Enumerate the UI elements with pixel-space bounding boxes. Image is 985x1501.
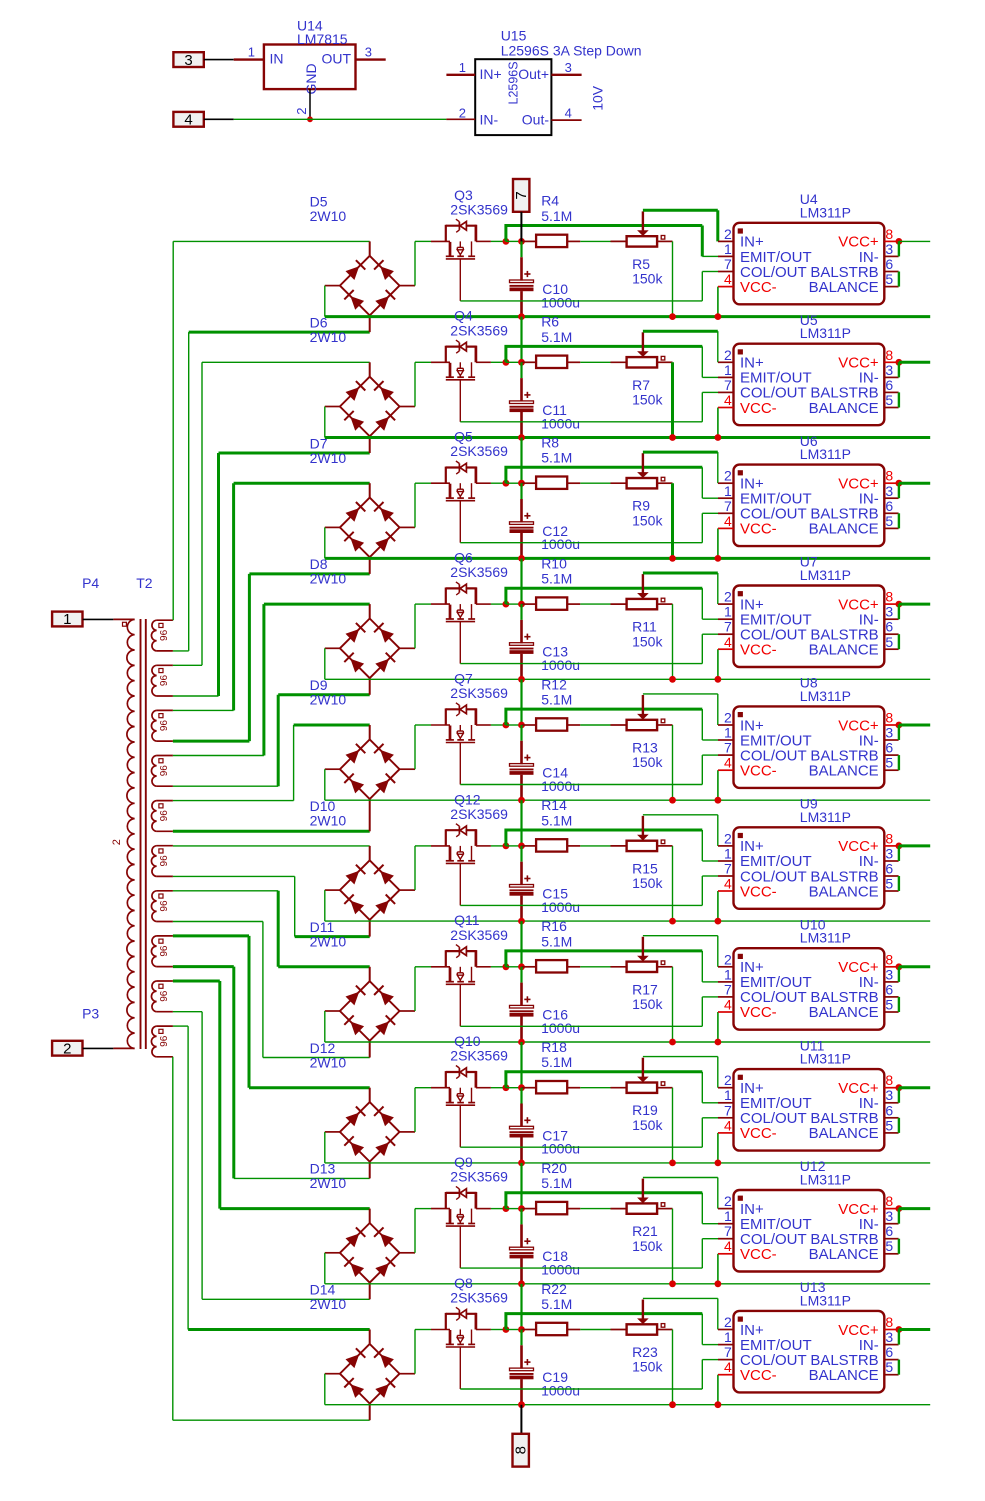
svg-text:5: 5 <box>885 1238 893 1254</box>
label C13 <box>541 644 580 673</box>
node junction rail row7 R <box>669 1039 676 1046</box>
potentiometer R7 150k <box>627 332 665 367</box>
svg-text:2: 2 <box>724 347 732 363</box>
wire bridge D12 bottom stub <box>369 1162 371 1179</box>
node junction rail row1 P4 <box>715 313 722 320</box>
label R19 150k <box>632 1102 663 1133</box>
svg-text:LM311P: LM311P <box>800 325 851 341</box>
wire pin3 to pin8 row7 <box>898 967 900 982</box>
node junction rail row1 C <box>518 313 525 320</box>
svg-text:1000u: 1000u <box>541 778 580 794</box>
wire pin8 row8 <box>899 1086 930 1089</box>
wire bridge D10 left corner down <box>324 890 326 921</box>
svg-text:R20: R20 <box>541 1160 567 1176</box>
svg-text:2W10: 2W10 <box>310 813 347 829</box>
svg-text:150k: 150k <box>632 1359 663 1375</box>
wire backbone row4 to row5 <box>520 679 522 725</box>
wire R14 left lead <box>522 845 537 847</box>
bridge rectifier D11 2W10 <box>340 981 400 1041</box>
svg-text:5: 5 <box>885 271 893 287</box>
svg-text:Q12: Q12 <box>454 791 481 807</box>
wire R21 right lead <box>657 1208 672 1210</box>
transformer T2 secondary winding 6 <box>151 846 172 877</box>
svg-text:6: 6 <box>885 1102 893 1118</box>
net label 10V <box>590 85 606 111</box>
svg-text:2: 2 <box>724 830 732 846</box>
label C19 <box>541 1369 580 1398</box>
node junction row7 A <box>503 963 510 970</box>
wire backbone row9 to row10 <box>520 1284 522 1330</box>
wire bridge D8 left lead <box>325 647 340 649</box>
svg-text:1: 1 <box>724 966 732 982</box>
transformer T2 secondary winding 3 <box>151 710 172 741</box>
wire term3 to U14 pin1 <box>204 59 234 61</box>
svg-text:5.1M: 5.1M <box>541 1296 572 1312</box>
svg-text:LM311P: LM311P <box>800 930 851 946</box>
svg-text:T2: T2 <box>136 575 153 591</box>
svg-text:VCC-: VCC- <box>740 1004 777 1021</box>
wire rail row3 <box>325 557 930 560</box>
svg-text:4: 4 <box>724 876 732 892</box>
wire sec7 top lead <box>173 890 278 892</box>
wire between resistors <box>580 724 610 726</box>
wire R19 right lead <box>657 1087 672 1089</box>
wire row1 bottom feed <box>189 331 370 334</box>
svg-text:8: 8 <box>512 1446 529 1454</box>
svg-text:4: 4 <box>724 634 732 650</box>
wire rail row10 <box>325 1404 930 1406</box>
label Q6 <box>450 550 508 581</box>
wire row10 top vertical <box>187 1026 189 1329</box>
svg-text:1: 1 <box>248 45 255 60</box>
wire bridge D7 right up <box>414 483 416 527</box>
wire wiper feed row6 <box>643 815 718 846</box>
wire pin4 row3 to rail <box>717 528 719 558</box>
transformer T2 secondary winding 7 <box>151 891 172 922</box>
wire bridge D13 bottom stub <box>369 1283 371 1300</box>
svg-text:6: 6 <box>885 1344 893 1360</box>
svg-text:2SK3569: 2SK3569 <box>450 443 508 459</box>
wire R13 left lead <box>611 724 627 726</box>
wire pin8 row2 <box>899 361 930 364</box>
wire Q12 drain stub <box>476 845 491 847</box>
wire wiper feed row4 <box>643 573 718 604</box>
label R7 150k <box>632 377 663 408</box>
wire R18 right lead <box>567 1087 580 1089</box>
wire bridge D11 right up <box>414 967 416 1011</box>
wire R11 right down <box>672 604 674 679</box>
svg-text:1: 1 <box>724 1208 732 1224</box>
wire pin5 to pin6 row5 <box>898 755 900 770</box>
node junction row3 B <box>518 480 525 487</box>
label Q3 <box>450 187 508 218</box>
wire source row2 <box>460 392 718 421</box>
wire backbone row8 to row9 <box>520 1163 522 1209</box>
wire bridge D9 top stub <box>369 725 371 739</box>
wire source row4 <box>460 634 718 663</box>
svg-text:2W10: 2W10 <box>310 450 347 466</box>
svg-text:7: 7 <box>724 1102 732 1118</box>
node junction pin8 row7 <box>896 963 903 970</box>
label LM7815 <box>297 31 348 47</box>
label Q7 <box>450 670 508 701</box>
wire pin8 row6 <box>899 844 930 847</box>
wire pin8 row9 <box>899 1207 930 1210</box>
node junction row6 A <box>503 843 510 850</box>
transformer T2 secondary winding 10 <box>151 1026 172 1057</box>
svg-text:R18: R18 <box>541 1039 567 1055</box>
wire junction to backbone <box>506 361 522 363</box>
svg-text:5.1M: 5.1M <box>541 450 572 466</box>
wire main row2 green <box>415 361 431 363</box>
wire source row3 <box>460 513 718 542</box>
wire row10 bottom feed <box>173 1419 370 1421</box>
svg-text:IN-: IN- <box>480 111 499 127</box>
node junction row7 B <box>518 963 525 970</box>
wire source row6 <box>460 876 718 905</box>
wire junction to backbone <box>506 1208 522 1210</box>
wire bridge D10 left lead <box>325 889 340 891</box>
wire backbone row2 to row3 <box>520 438 522 484</box>
svg-text:Q6: Q6 <box>454 550 473 566</box>
transistor Q5 2SK3569 <box>446 461 477 543</box>
label Q11 <box>450 912 508 943</box>
wire bridge D13 left lead <box>325 1252 340 1254</box>
wire pin1 feed row1 <box>506 226 718 257</box>
wire R9 right down <box>671 483 674 558</box>
svg-text:1000u: 1000u <box>541 294 580 310</box>
comparator U10 LM311P <box>718 948 899 1029</box>
wire bridge D9 left corner down <box>324 769 326 800</box>
svg-text:BALANCE: BALANCE <box>809 642 879 659</box>
wire sec10 top lead <box>173 1025 188 1027</box>
label Q4 <box>450 308 508 339</box>
wire row10 bottom vertical <box>172 1057 174 1420</box>
svg-text:96: 96 <box>159 1035 170 1047</box>
wire R7 left lead <box>611 361 627 363</box>
node junction rail row4 P4 <box>715 676 722 683</box>
wire bridge D9 right lead <box>400 768 416 770</box>
label C10 <box>541 281 580 310</box>
svg-text:4: 4 <box>184 112 192 129</box>
svg-text:7: 7 <box>724 861 732 877</box>
svg-text:Q7: Q7 <box>454 670 473 686</box>
wire bridge D10 right lead <box>400 889 416 891</box>
wire bridge D11 left corner down <box>324 1011 326 1042</box>
potentiometer R21 150k <box>627 1179 665 1214</box>
transistor Q9 2SK3569 <box>446 1186 477 1268</box>
svg-text:8: 8 <box>885 1314 893 1330</box>
comparator U13 LM311P <box>718 1311 899 1393</box>
connector P4 pin 1 terminal <box>52 611 82 628</box>
label R15 150k <box>632 860 663 891</box>
svg-text:1: 1 <box>63 611 71 628</box>
node junction rail row6 P4 <box>715 918 722 925</box>
bridge rectifier D10 2W10 <box>340 860 400 920</box>
label R12 5.1M <box>541 676 572 707</box>
wire Q11 gate stub <box>431 966 450 968</box>
svg-text:2: 2 <box>63 1040 71 1057</box>
potentiometer R11 150k <box>627 574 665 609</box>
svg-text:1: 1 <box>724 362 732 378</box>
svg-text:2SK3569: 2SK3569 <box>450 1290 508 1306</box>
wire row1 top feed <box>173 240 370 242</box>
label C11 <box>541 402 580 431</box>
wire pin4 row8 to rail <box>717 1133 719 1163</box>
label R11 150k <box>632 619 663 650</box>
wire pin3 to pin8 row5 <box>898 725 900 740</box>
svg-text:R8: R8 <box>541 435 559 451</box>
wire row4 bottom feed <box>278 693 370 696</box>
wire drain to junction <box>491 603 506 605</box>
label P3 <box>82 1005 99 1021</box>
node junction rail row2 P4 <box>715 434 722 441</box>
svg-text:2SK3569: 2SK3569 <box>450 322 508 338</box>
wire pin4 row9 to rail <box>717 1254 719 1284</box>
resistor R16 5.1M <box>536 960 567 972</box>
wire bridge D6 right lead <box>400 406 416 408</box>
svg-text:3: 3 <box>565 60 572 75</box>
wire R17 left lead <box>611 966 627 968</box>
wire sec9 bottom lead <box>173 1011 202 1013</box>
wire pin3 to pin8 row3 <box>898 483 900 498</box>
wire drain to junction <box>491 240 506 242</box>
wire Q8 drain stub <box>476 1329 491 1331</box>
wire Q5 drain stub <box>476 482 491 484</box>
capacitor C18 1000u <box>510 1224 534 1283</box>
wire pin1 feed row9 <box>506 1193 718 1224</box>
wire row4 bottom vertical <box>277 695 280 786</box>
wire pin1 feed row7 <box>506 951 718 982</box>
transformer T2 secondary winding 9 <box>151 981 172 1012</box>
svg-text:2W10: 2W10 <box>310 571 347 587</box>
svg-text:BALANCE: BALANCE <box>809 1246 879 1263</box>
svg-text:VCC-: VCC- <box>740 1125 777 1142</box>
wire R11 right lead <box>657 603 672 605</box>
wire between resistors <box>580 240 610 242</box>
wire Q6 gate stub <box>431 603 450 605</box>
wire row3 bottom feed <box>249 572 369 575</box>
wire bridge D11 top stub <box>369 967 371 981</box>
wire Q3 gate stub <box>431 240 450 242</box>
wire Q12 gate stub <box>431 845 450 847</box>
svg-text:1: 1 <box>724 846 732 862</box>
potentiometer R15 150k <box>627 816 665 851</box>
node junction row1 A <box>503 238 510 245</box>
wire R5 left lead <box>611 240 627 242</box>
node junction rail row6 C <box>518 918 525 925</box>
wire bridge D13 right lead <box>400 1252 416 1254</box>
wire row6 top direct <box>173 845 370 847</box>
svg-text:4: 4 <box>724 513 732 529</box>
bridge rectifier D12 2W10 <box>340 1102 400 1162</box>
node junction rail row10 P4 <box>715 1401 722 1408</box>
svg-text:6: 6 <box>885 1223 893 1239</box>
svg-text:6: 6 <box>885 981 893 997</box>
comparator U6 LM311P <box>718 465 899 546</box>
wire R15 right down <box>672 846 674 921</box>
svg-text:LM311P: LM311P <box>800 1051 851 1067</box>
svg-text:Q8: Q8 <box>454 1275 473 1291</box>
wire junction to backbone <box>506 1087 522 1089</box>
svg-text:L2596S 3A Step Down: L2596S 3A Step Down <box>501 43 642 59</box>
svg-text:5.1M: 5.1M <box>541 1175 572 1191</box>
wire bridge D13 left corner down <box>324 1253 326 1284</box>
wire backbone row1 to row2 <box>520 317 522 363</box>
node junction row10 B <box>518 1326 525 1333</box>
svg-text:VCC-: VCC- <box>740 400 777 417</box>
wire R12 left lead <box>522 724 537 726</box>
wire drain to junction <box>491 1329 506 1331</box>
wire sec4 top lead <box>173 755 264 757</box>
wire bridge D5 right lead <box>400 285 416 287</box>
node junction row3 A <box>503 480 510 487</box>
wire bridge D6 left corner down <box>324 407 326 438</box>
wire pin1 feed row10 <box>506 1314 718 1345</box>
wire main row5 green <box>415 724 431 726</box>
wire bridge D5 bottom stub <box>369 315 371 332</box>
svg-text:7: 7 <box>724 619 732 635</box>
wire bridge D14 left corner down <box>324 1374 326 1405</box>
capacitor C16 1000u <box>510 983 534 1042</box>
node junction rail row4 R <box>669 676 676 683</box>
svg-text:5: 5 <box>885 997 893 1013</box>
svg-text:3: 3 <box>885 241 893 257</box>
wire backbone above cap row1 <box>520 241 522 257</box>
label U8 <box>800 675 851 704</box>
node junction row8 A <box>503 1084 510 1091</box>
resistor R14 5.1M <box>536 839 567 851</box>
wire drain to junction <box>491 482 506 484</box>
wire sec5 top lead <box>173 800 294 802</box>
svg-text:2W10: 2W10 <box>310 1054 347 1070</box>
label D7 <box>310 435 347 466</box>
svg-text:150k: 150k <box>632 1238 663 1254</box>
resistor R20 5.1M <box>536 1202 567 1214</box>
wire wiper feed row3 <box>643 452 718 483</box>
wire R19 right down <box>672 1088 674 1163</box>
svg-text:1: 1 <box>724 483 732 499</box>
label R17 150k <box>632 981 663 1012</box>
wire R15 right lead <box>657 845 672 847</box>
wire wiper feed row10 <box>643 1298 718 1329</box>
wire row7 top feed <box>278 965 370 968</box>
step-down converter U15 <box>475 59 551 135</box>
svg-text:2: 2 <box>724 1314 732 1330</box>
wire bridge D9 right up <box>414 725 416 769</box>
node junction row8 B <box>518 1084 525 1091</box>
junction on GND net <box>307 116 313 122</box>
wire row8 bottom feed <box>234 1177 370 1179</box>
node junction rail row9 P4 <box>715 1280 722 1287</box>
wire between resistors <box>580 603 610 605</box>
transformer T2 core <box>141 619 146 1049</box>
wire Q7 drain stub <box>476 724 491 726</box>
svg-text:4: 4 <box>724 271 732 287</box>
svg-text:VCC-: VCC- <box>740 763 777 780</box>
svg-text:6: 6 <box>885 256 893 272</box>
svg-text:5: 5 <box>885 1359 893 1375</box>
svg-text:U15: U15 <box>501 28 527 44</box>
label U9 <box>800 796 851 825</box>
svg-text:3: 3 <box>885 725 893 741</box>
wire pin4 row4 to rail <box>717 649 719 679</box>
svg-text:8: 8 <box>885 468 893 484</box>
bridge rectifier D7 2W10 <box>340 498 400 558</box>
wire bridge D10 right up <box>414 846 416 890</box>
svg-text:R6: R6 <box>541 314 559 330</box>
wire pin8 row3 <box>899 482 930 485</box>
svg-text:8: 8 <box>885 1193 893 1209</box>
transistor Q11 2SK3569 <box>446 945 477 1027</box>
wire bridge D14 left lead <box>325 1373 340 1375</box>
svg-text:7: 7 <box>724 740 732 756</box>
svg-text:4: 4 <box>724 1238 732 1254</box>
wire bridge D9 bottom stub <box>369 799 371 831</box>
wire wiper feed row9 <box>643 1178 718 1209</box>
wire R8 left lead <box>522 482 537 484</box>
wire bridge D10 top stub <box>369 846 371 860</box>
label U7 <box>800 554 851 583</box>
transformer T2 secondary winding 4 <box>151 756 172 787</box>
wire sec8 bottom lead <box>173 965 234 968</box>
wire R12 right lead <box>567 724 580 726</box>
svg-text:2W10: 2W10 <box>310 1296 347 1312</box>
transistor Q12 2SK3569 <box>446 824 477 906</box>
comparator U5 LM311P <box>718 344 899 426</box>
wire row4 top vertical <box>262 604 265 755</box>
svg-text:4: 4 <box>724 755 732 771</box>
transformer T2 secondary winding 8 <box>151 936 172 967</box>
svg-text:5.1M: 5.1M <box>541 571 572 587</box>
potentiometer R23 150k <box>627 1300 665 1335</box>
wire R20 right lead <box>567 1208 580 1210</box>
wire R6 right lead <box>567 361 580 363</box>
comparator U12 LM311P <box>718 1190 899 1272</box>
wire terminal 7 black <box>520 212 522 242</box>
wire R23 right lead <box>657 1329 672 1331</box>
wire sec7 bottom lead <box>173 921 263 923</box>
wire row7 bottom vertical <box>262 922 264 1058</box>
wire bridge D7 right lead <box>400 526 416 528</box>
wire pin1 feed row4 <box>506 588 718 619</box>
wire R21 left lead <box>611 1208 627 1210</box>
svg-text:7: 7 <box>724 981 732 997</box>
wire pin3 to pin8 row10 <box>898 1330 900 1345</box>
svg-text:R10: R10 <box>541 555 567 571</box>
node junction rail row2 C <box>518 434 525 441</box>
node junction pin8 row5 <box>896 722 903 729</box>
label C15 <box>541 886 580 915</box>
wire pin3 to pin8 row4 <box>898 604 900 619</box>
svg-text:BALANCE: BALANCE <box>809 1125 879 1142</box>
svg-text:3: 3 <box>885 966 893 982</box>
svg-text:1000u: 1000u <box>541 1141 580 1157</box>
label Q8 <box>450 1275 508 1306</box>
wire bridge D12 right lead <box>400 1131 416 1133</box>
bridge rectifier D13 2W10 <box>340 1223 400 1283</box>
wire R15 left lead <box>611 845 627 847</box>
U14 pin 1 stub <box>234 45 264 60</box>
label T2 <box>136 575 153 591</box>
wire bridge D11 bottom stub <box>369 1041 371 1058</box>
wire bridge D5 right up <box>414 241 416 285</box>
label U14 <box>297 18 323 34</box>
wire backbone row6 to row7 <box>520 921 522 967</box>
svg-text:2W10: 2W10 <box>310 208 347 224</box>
wire sec2 bottom lead <box>173 695 219 697</box>
svg-text:5.1M: 5.1M <box>541 208 572 224</box>
